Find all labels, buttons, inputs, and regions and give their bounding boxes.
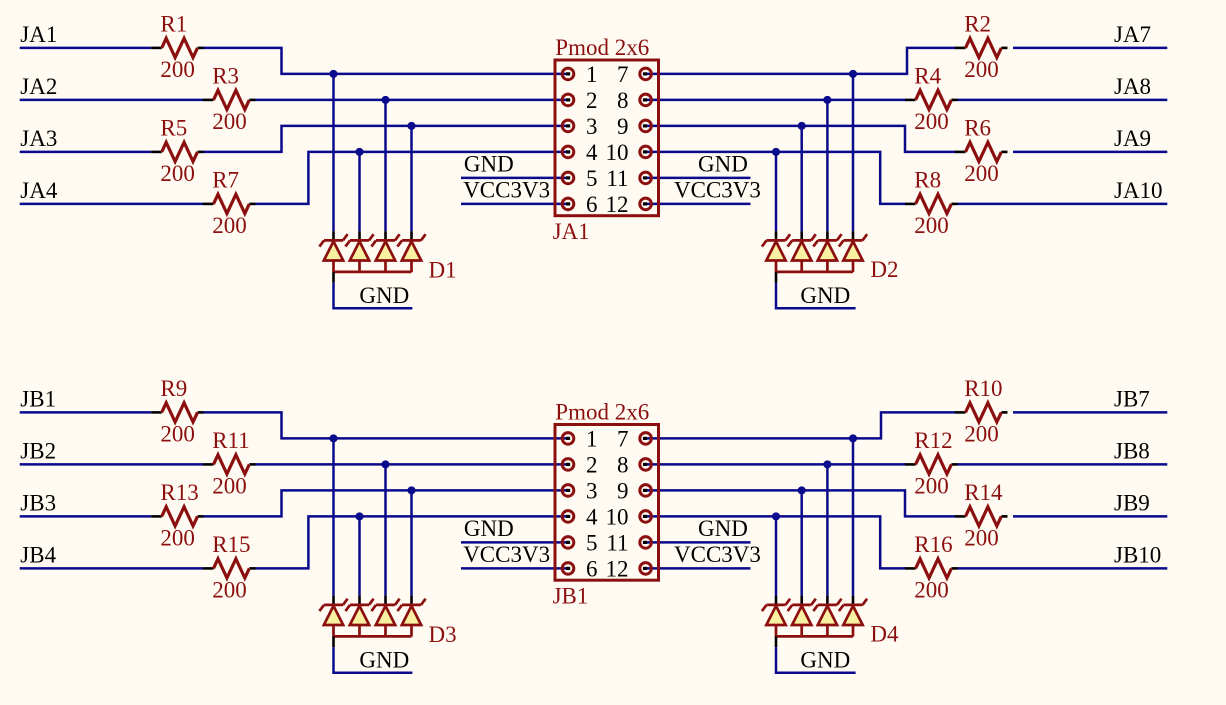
diode D3 common anode rail	[334, 635, 412, 638]
svg-text:11: 11	[606, 166, 628, 191]
svg-text:200: 200	[212, 474, 247, 499]
resistor R8	[905, 194, 958, 213]
pin 3	[562, 485, 574, 497]
resistor R11	[203, 455, 256, 474]
svg-text:9: 9	[617, 478, 629, 503]
junction on JA7 net	[849, 70, 857, 78]
svg-text:GND: GND	[464, 516, 514, 541]
svg-text:1: 1	[586, 62, 598, 87]
resistor R10	[955, 403, 1008, 422]
svg-text:200: 200	[914, 474, 949, 499]
black pin stub diode D1 common	[332, 272, 335, 283]
pin 1	[562, 433, 574, 445]
wire connector pin 7 to R2	[646, 48, 955, 74]
pin 10	[640, 511, 652, 523]
wire JB10 net to diode D4.1	[775, 516, 778, 595]
wire R3 to connector pin 2	[256, 99, 569, 102]
wire JA1 net to diode D1.1	[332, 74, 335, 231]
svg-text:JA2: JA2	[20, 74, 57, 99]
junction on JA9 net	[798, 122, 806, 130]
pin 12	[640, 198, 652, 210]
wire connector pin 8 to R12	[646, 463, 906, 466]
black pin stub diode D4.2	[800, 596, 803, 605]
svg-text:GND: GND	[464, 152, 514, 177]
svg-text:200: 200	[212, 213, 247, 238]
svg-text:12: 12	[606, 556, 629, 581]
svg-text:200: 200	[160, 161, 195, 186]
resistor R2	[955, 38, 1008, 57]
resistor R6	[955, 142, 1008, 161]
svg-text:VCC3V3: VCC3V3	[674, 178, 761, 203]
TVS diode D1.3	[371, 234, 399, 272]
pin 12	[640, 563, 652, 575]
wire connector pin 8 to R4	[646, 99, 906, 102]
pin 2	[562, 459, 574, 471]
black pin stub diode D3 common	[332, 636, 335, 647]
wire JA3 net to diode D1.4	[410, 126, 413, 231]
svg-text:200: 200	[914, 213, 949, 238]
svg-text:GND: GND	[800, 648, 850, 673]
TVS diode D3.1	[319, 599, 347, 637]
wire R8 to port JA10	[958, 203, 1168, 206]
pin 2	[562, 94, 574, 106]
pin 9	[640, 120, 652, 132]
svg-text:3: 3	[586, 114, 598, 139]
wire R15 to connector pin 4	[256, 516, 569, 568]
wire GND to pin 5	[461, 177, 568, 180]
black pin stub diode D1.2	[358, 231, 361, 240]
svg-text:JA10: JA10	[1114, 178, 1163, 203]
wire R1 to connector pin 1	[204, 48, 569, 74]
svg-text:200: 200	[914, 109, 949, 134]
svg-text:JA7: JA7	[1114, 22, 1151, 47]
svg-text:GND: GND	[359, 283, 409, 308]
junction on JB7 net	[849, 434, 857, 442]
resistor R9	[151, 403, 204, 422]
svg-text:R7: R7	[212, 167, 239, 192]
svg-text:Pmod 2x6: Pmod 2x6	[555, 399, 649, 424]
junction on JB2 net	[381, 460, 389, 468]
wire JA2 net to diode D1.3	[384, 100, 387, 231]
TVS diode D3.4	[397, 599, 425, 637]
svg-text:6: 6	[586, 556, 598, 581]
resistor R15	[203, 559, 256, 578]
svg-text:R5: R5	[160, 115, 187, 140]
wire JA3 to R5	[20, 151, 152, 154]
TVS diode D1.2	[345, 234, 373, 272]
TVS diode D2.4	[839, 234, 867, 272]
wire JB3 net to diode D3.4	[410, 490, 413, 595]
junction on JA3 net	[407, 122, 415, 130]
resistor R12	[905, 455, 958, 474]
svg-text:200: 200	[964, 422, 999, 447]
junction on JB8 net	[823, 460, 831, 468]
TVS diode D4.2	[788, 599, 816, 637]
wire pin 12 to VCC3V3	[646, 567, 751, 570]
svg-text:R3: R3	[212, 63, 239, 88]
svg-text:VCC3V3: VCC3V3	[674, 542, 761, 567]
pin 1	[562, 68, 574, 80]
svg-text:JB8: JB8	[1114, 438, 1150, 463]
svg-text:R1: R1	[160, 11, 187, 36]
svg-text:R12: R12	[914, 428, 952, 453]
wire JB9 net to diode D4.2	[800, 490, 803, 595]
svg-text:JB9: JB9	[1114, 490, 1150, 515]
black pin stub diode D1.1	[332, 231, 335, 240]
diode D2 common anode rail	[776, 271, 853, 274]
wire connector pin 7 to R10	[646, 412, 955, 438]
black pin stub diode D2.4	[852, 231, 855, 240]
black pin stub diode D3.4	[410, 596, 413, 605]
black pin stub diode D4.3	[826, 596, 829, 605]
junction on JA8 net	[823, 96, 831, 104]
black pin stub diode D4.4	[852, 596, 855, 605]
svg-text:GND: GND	[800, 283, 850, 308]
pin 9	[640, 485, 652, 497]
svg-text:JA1: JA1	[553, 219, 590, 244]
black pin stub diode D2.2	[800, 231, 803, 240]
svg-text:9: 9	[617, 114, 629, 139]
svg-text:5: 5	[586, 530, 598, 555]
junction on JB3 net	[407, 486, 415, 494]
black pin stub diode D4 common	[775, 636, 778, 647]
wire pin 11 to GND	[646, 541, 751, 544]
svg-text:R16: R16	[914, 532, 952, 557]
black pin stub diode D2.1	[775, 231, 778, 240]
wire JB1 net to diode D3.1	[332, 438, 335, 595]
pin 10	[640, 146, 652, 158]
wire R4 to port JA8	[958, 99, 1168, 102]
svg-text:200: 200	[212, 578, 247, 603]
svg-text:D3: D3	[429, 622, 457, 647]
wire diode D1 to GND	[334, 283, 413, 309]
svg-text:1: 1	[586, 426, 598, 451]
svg-text:7: 7	[617, 62, 629, 87]
wire R13 to connector pin 3	[204, 490, 569, 516]
svg-text:JA9: JA9	[1114, 126, 1151, 151]
wire JA4 to R7	[20, 203, 203, 206]
wire VCC3V3 to pin 6	[461, 567, 568, 570]
resistor R14	[955, 507, 1008, 526]
wire R7 to connector pin 4	[256, 152, 569, 204]
wire R10 to port JB7	[1013, 411, 1167, 414]
pin 7	[640, 433, 652, 445]
wire JA7 net to diode D2.4	[852, 74, 855, 231]
svg-text:200: 200	[964, 526, 999, 551]
junction on JB10 net	[772, 512, 780, 520]
wire JB4 to R15	[20, 567, 203, 570]
svg-text:R11: R11	[212, 428, 250, 453]
pin 11	[640, 172, 652, 184]
svg-text:11: 11	[606, 530, 628, 555]
svg-text:JA3: JA3	[20, 126, 57, 151]
svg-text:12: 12	[606, 192, 629, 217]
wire R16 to port JB10	[958, 567, 1168, 570]
svg-text:JA4: JA4	[20, 178, 58, 203]
svg-text:R8: R8	[914, 167, 941, 192]
svg-text:R15: R15	[212, 532, 250, 557]
svg-text:JB3: JB3	[20, 490, 56, 515]
svg-text:JA8: JA8	[1114, 74, 1151, 99]
svg-text:R4: R4	[914, 63, 941, 88]
junction on JB9 net	[798, 486, 806, 494]
TVS diode D1.4	[397, 234, 425, 272]
resistor R7	[203, 194, 256, 213]
resistor R4	[905, 90, 958, 109]
svg-text:D2: D2	[870, 257, 898, 282]
TVS diode D2.2	[788, 234, 816, 272]
wire JA10 net to diode D2.1	[775, 152, 778, 231]
pin 6	[562, 198, 574, 210]
resistor R3	[203, 90, 256, 109]
svg-text:200: 200	[914, 578, 949, 603]
svg-text:JB10: JB10	[1114, 542, 1161, 567]
black pin stub diode D3.1	[332, 596, 335, 605]
svg-text:4: 4	[586, 504, 598, 529]
TVS diode D3.2	[345, 599, 373, 637]
wire JA8 net to diode D2.3	[826, 100, 829, 231]
svg-text:R9: R9	[160, 376, 187, 401]
svg-text:7: 7	[617, 426, 629, 451]
junction on JA4 net	[355, 148, 363, 156]
wire R9 to connector pin 1	[204, 412, 569, 438]
pin 4	[562, 511, 574, 523]
wire diode D3 to GND	[334, 647, 413, 673]
junction on JB1 net	[329, 434, 337, 442]
TVS diode D1.1	[319, 234, 347, 272]
svg-text:8: 8	[617, 452, 629, 477]
wire diode D4 to GND	[776, 647, 856, 673]
pin 6	[562, 563, 574, 575]
wire JB8 net to diode D4.3	[826, 464, 829, 595]
svg-text:200: 200	[160, 422, 195, 447]
svg-text:GND: GND	[359, 648, 409, 673]
TVS diode D2.1	[762, 234, 790, 272]
svg-text:2: 2	[586, 452, 598, 477]
pin 7	[640, 68, 652, 80]
svg-text:D1: D1	[429, 258, 457, 283]
svg-text:6: 6	[586, 192, 598, 217]
TVS diode D4.3	[813, 599, 841, 637]
pin 11	[640, 537, 652, 549]
svg-text:JA1: JA1	[20, 22, 57, 47]
resistor R13	[151, 507, 204, 526]
svg-text:200: 200	[160, 57, 195, 82]
TVS diode D4.1	[762, 599, 790, 637]
wire R12 to port JB8	[958, 463, 1168, 466]
black pin stub diode D3.2	[358, 596, 361, 605]
connector JB1 body	[555, 425, 659, 581]
svg-text:VCC3V3: VCC3V3	[463, 542, 550, 567]
diode D1 common anode rail	[334, 271, 412, 274]
black pin stub diode D1.3	[384, 231, 387, 240]
wire JB3 to R13	[20, 515, 152, 518]
TVS diode D2.3	[813, 234, 841, 272]
svg-text:JB7: JB7	[1114, 386, 1150, 411]
wire JB1 to R9	[20, 411, 152, 414]
resistor R1	[151, 38, 204, 57]
black pin stub diode D2.3	[826, 231, 829, 240]
wire JB2 to R11	[20, 463, 203, 466]
svg-text:4: 4	[586, 140, 598, 165]
junction on JB4 net	[355, 512, 363, 520]
junction on JA1 net	[329, 70, 337, 78]
wire JB4 net to diode D3.2	[358, 516, 361, 595]
svg-text:R6: R6	[964, 115, 991, 140]
svg-text:R10: R10	[964, 376, 1002, 401]
svg-text:R14: R14	[964, 480, 1003, 505]
svg-text:JB1: JB1	[553, 584, 589, 609]
svg-text:200: 200	[964, 57, 999, 82]
svg-text:GND: GND	[698, 152, 748, 177]
svg-text:200: 200	[212, 109, 247, 134]
wire JA1 to R1	[20, 47, 152, 50]
junction on JA10 net	[772, 148, 780, 156]
svg-text:200: 200	[160, 526, 195, 551]
wire R11 to connector pin 2	[256, 463, 569, 466]
connector JA1 body	[555, 60, 659, 216]
pin 3	[562, 120, 574, 132]
pin 8	[640, 94, 652, 106]
wire JB2 net to diode D3.3	[384, 464, 387, 595]
wire R6 to port JA9	[1013, 151, 1167, 154]
pin 8	[640, 459, 652, 471]
svg-text:R13: R13	[160, 480, 198, 505]
wire connector pin 10 to R8	[646, 152, 906, 204]
black pin stub diode D3.3	[384, 596, 387, 605]
svg-text:3: 3	[586, 478, 598, 503]
wire R14 to port JB9	[1013, 515, 1167, 518]
TVS diode D4.4	[839, 599, 867, 637]
wire connector pin 10 to R16	[646, 516, 906, 568]
svg-text:10: 10	[606, 140, 629, 165]
pin 5	[562, 172, 574, 184]
wire diode D2 to GND	[776, 283, 856, 309]
svg-text:R2: R2	[964, 11, 991, 36]
svg-text:8: 8	[617, 88, 629, 113]
svg-text:GND: GND	[698, 516, 748, 541]
resistor R5	[151, 142, 204, 161]
svg-text:10: 10	[606, 504, 629, 529]
wire JB7 net to diode D4.4	[852, 438, 855, 595]
wire R2 to port JA7	[1013, 47, 1167, 50]
diode D4 common anode rail	[776, 635, 853, 638]
wire connector pin 9 to R6	[646, 126, 955, 152]
junction on JA2 net	[381, 96, 389, 104]
svg-text:Pmod 2x6: Pmod 2x6	[555, 35, 649, 60]
wire JA2 to R3	[20, 99, 203, 102]
resistor R16	[905, 559, 958, 578]
svg-text:JB2: JB2	[20, 438, 56, 463]
svg-text:200: 200	[964, 161, 999, 186]
svg-text:5: 5	[586, 166, 598, 191]
TVS diode D3.3	[371, 599, 399, 637]
wire JA9 net to diode D2.2	[800, 126, 803, 231]
black pin stub diode D1.4	[410, 231, 413, 240]
wire pin 11 to GND	[646, 177, 751, 180]
svg-text:JB4: JB4	[20, 542, 56, 567]
pin 5	[562, 537, 574, 549]
pin 4	[562, 146, 574, 158]
black pin stub diode D2 common	[775, 272, 778, 283]
wire pin 12 to VCC3V3	[646, 203, 751, 206]
wire connector pin 9 to R14	[646, 490, 955, 516]
svg-text:2: 2	[586, 88, 598, 113]
wire R5 to connector pin 3	[204, 126, 569, 152]
wire JA4 net to diode D1.2	[358, 152, 361, 231]
svg-text:JB1: JB1	[20, 386, 56, 411]
wire GND to pin 5	[461, 541, 568, 544]
black pin stub diode D4.1	[775, 596, 778, 605]
svg-text:D4: D4	[870, 622, 899, 647]
wire VCC3V3 to pin 6	[461, 203, 568, 206]
svg-text:VCC3V3: VCC3V3	[463, 178, 550, 203]
